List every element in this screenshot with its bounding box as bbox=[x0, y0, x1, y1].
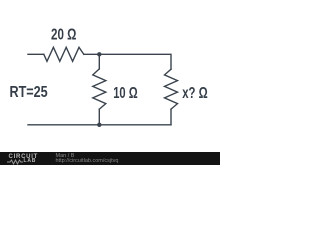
wire top to right corner bbox=[84, 54, 171, 69]
resistor R2 10 ohm (vertical middle) bbox=[93, 69, 106, 109]
circuitlab logo text CIRCUIT bbox=[9, 154, 39, 160]
watermark tiny text line 1 bbox=[56, 153, 75, 159]
circuitlab logo text LAB bbox=[24, 158, 37, 164]
junction node bottom bbox=[97, 123, 101, 127]
wire right side down bbox=[170, 109, 172, 125]
resistor R3 x? ohm (vertical right) bbox=[165, 69, 178, 109]
wire middle bottom stub bbox=[98, 109, 100, 125]
svg-text:RT=25: RT=25 bbox=[10, 84, 48, 101]
watermark bar bbox=[0, 152, 220, 165]
wire top-left stub bbox=[28, 53, 44, 55]
watermark tiny text line 2 bbox=[56, 158, 119, 164]
circuitlab logo resistor squiggle bbox=[7, 159, 37, 165]
svg-text:10 Ω: 10 Ω bbox=[113, 85, 138, 102]
wire bottom bbox=[28, 124, 171, 126]
wire middle top stub bbox=[98, 54, 100, 69]
svg-text:x? Ω: x? Ω bbox=[182, 85, 208, 102]
junction node top bbox=[97, 52, 101, 56]
svg-text:20 Ω: 20 Ω bbox=[51, 27, 76, 44]
resistor R1 20 ohm (horizontal) bbox=[44, 47, 84, 61]
